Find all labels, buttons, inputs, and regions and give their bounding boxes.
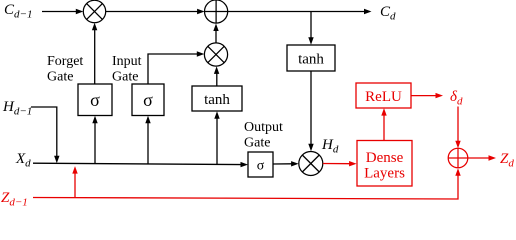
multiplier X1 (forget gate product) <box>83 0 105 22</box>
wire delta_d down to adder P2 (red) <box>455 107 460 149</box>
wire X line up to sigma2 <box>145 116 150 164</box>
wire sigma1 up to multiplier X1 <box>92 23 97 84</box>
wire adder P2 to Z_d (red) <box>468 155 496 160</box>
wire tanh2 down to multiplier X3 <box>308 71 313 151</box>
wire Z line up to X line (red) <box>72 166 77 198</box>
tanh box (cell output activation) <box>287 45 335 71</box>
wire X_d main input line to output sigma <box>33 162 248 167</box>
wire multiplier X2 up to adder P1 <box>213 24 218 43</box>
svg-text:σ: σ <box>257 159 265 174</box>
svg-text:σ: σ <box>143 90 153 110</box>
wire H_{d-1} right then down to X line <box>31 107 60 163</box>
multiplier X3 (output product) <box>299 152 323 176</box>
wire tanh1 up to multiplier X2 <box>214 66 219 86</box>
sigma box (forget gate) <box>78 84 112 116</box>
wire sigma3 to multiplier X3 <box>273 161 299 166</box>
multiplier X2 (input gate product) <box>204 43 227 66</box>
svg-text:ReLU: ReLU <box>365 89 402 105</box>
wire Dense Layers up to ReLU (red) <box>381 108 386 140</box>
sigma box (output gate) <box>248 152 273 177</box>
svg-text:Forget: Forget <box>47 54 83 69</box>
wire multiplier X1 to adder <box>106 9 205 14</box>
adder P2 (red) <box>448 148 468 168</box>
svg-text:Dense: Dense <box>366 150 404 166</box>
wire input gate up and right to multiplier X2 <box>148 51 204 84</box>
svg-text:σ: σ <box>90 90 100 110</box>
wire adder to C_d output <box>228 9 372 14</box>
ReLU box (red) <box>356 83 411 108</box>
svg-text:tanh: tanh <box>298 52 324 68</box>
svg-text:Gate: Gate <box>112 70 138 85</box>
adder P1 (cell state sum) <box>205 0 228 23</box>
tanh box (candidate) <box>192 86 242 111</box>
svg-text:Input: Input <box>112 54 142 69</box>
wire Z_{d-1} bottom line then up to adder P2 (red) <box>33 168 461 199</box>
Dense Layers box (red) <box>357 141 412 187</box>
wire junction on C line down to tanh2 <box>308 12 313 45</box>
wire X line up to sigma1 <box>92 116 97 164</box>
wire C_{d-1} to multiplier <box>42 9 83 14</box>
svg-text:Gate: Gate <box>47 70 73 85</box>
wire multiplier X3 to Dense Layers (red) <box>323 161 357 166</box>
wire ReLU to delta_d (red) <box>411 93 443 98</box>
svg-text:Layers: Layers <box>364 166 405 182</box>
svg-text:Output: Output <box>244 120 283 135</box>
sigma box (input gate) <box>132 84 164 116</box>
wire X line up to tanh1 <box>214 111 219 164</box>
svg-text:Gate: Gate <box>244 136 270 151</box>
svg-text:tanh: tanh <box>204 92 230 108</box>
